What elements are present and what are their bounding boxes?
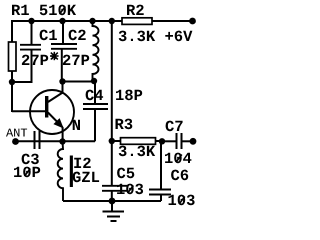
resistor R1 <box>9 42 17 71</box>
wire R1 top lead <box>11 21 13 42</box>
capacitor C5 plates <box>102 186 127 191</box>
wire emitter rail <box>16 140 96 142</box>
label C4 value <box>116 90 142 101</box>
wire R3 right lead <box>156 140 163 142</box>
wire collector lead <box>62 82 64 93</box>
label C5 <box>117 168 134 179</box>
wire C4 top lead <box>94 81 96 104</box>
wire C7 right lead <box>182 140 194 142</box>
transistor Q1 emitter arrowhead <box>54 119 63 128</box>
wire R3 left lead <box>112 140 121 142</box>
transistor Q1 circle <box>30 90 74 134</box>
label R1 zero slash <box>60 7 66 15</box>
transistor Q1 collector stroke <box>48 92 63 102</box>
wire top rail left <box>11 20 122 22</box>
node junction ground <box>109 198 116 205</box>
inductor L1 tank coil <box>93 21 99 81</box>
node junction C7 left <box>159 138 165 144</box>
inductor I2 core bar <box>70 156 73 188</box>
node junction collector <box>59 78 65 84</box>
label C1 value <box>22 54 57 65</box>
wire long +6V feed vertical <box>111 21 113 141</box>
label C2 <box>69 30 86 41</box>
wire top rail right of R2 <box>152 20 192 22</box>
label C6 zero slash <box>179 197 185 205</box>
wire C1 top lead <box>31 21 33 45</box>
capacitor C3 plates <box>35 131 40 149</box>
ground symbol <box>103 201 125 221</box>
label R3 value <box>119 146 156 157</box>
node terminal +6V <box>189 18 196 25</box>
node junction R3 left <box>109 138 115 144</box>
label N transistor polarity <box>73 120 80 130</box>
wire C6 top lead <box>160 142 162 190</box>
node junction coil bottom <box>91 78 97 84</box>
node junction top feed <box>109 18 115 24</box>
label C5 value <box>117 184 143 195</box>
transistor Q1 base bar <box>45 96 48 118</box>
label C3 <box>22 154 39 165</box>
wire C4 bottom lead <box>94 109 96 141</box>
node junction top C1 <box>28 18 34 24</box>
label C1 <box>40 30 57 41</box>
capacitor C4 plates <box>83 104 108 109</box>
node junction top coil <box>89 18 95 24</box>
label I2 <box>74 158 91 168</box>
label C1 value asterisk enlargement <box>50 52 59 60</box>
label C6 <box>171 170 188 181</box>
node junction top C2 <box>59 18 65 24</box>
transistor Q1 emitter stroke <box>48 113 63 128</box>
wire C1 bottom lead <box>12 51 32 83</box>
label R2 value +6V <box>119 31 193 42</box>
label R2 <box>127 5 144 15</box>
label C6 value <box>169 195 195 206</box>
wire C2 top lead <box>62 21 64 44</box>
node junction emitter <box>59 138 65 144</box>
capacitor C7 plates <box>177 133 182 149</box>
wire collector node to coil node <box>63 81 95 83</box>
node junction base bias <box>9 79 15 85</box>
label C2 value <box>63 55 89 65</box>
wire emitter lead <box>62 127 64 142</box>
wire C5 top lead <box>111 141 113 186</box>
inductor I2 coil <box>58 142 63 202</box>
wire C2 bottom lead <box>61 49 63 82</box>
node terminal ANT <box>12 138 19 145</box>
label C3 zero slash <box>25 169 31 177</box>
wire C5 bottom lead <box>111 191 113 202</box>
label C5 zero slash <box>128 186 134 194</box>
resistor R2 <box>122 18 152 25</box>
wire C6 bottom lead <box>160 195 162 202</box>
label R3 <box>116 119 133 130</box>
label C4 <box>86 90 104 101</box>
label I2 type GZL <box>73 172 100 183</box>
node terminal output <box>190 138 197 145</box>
resistor R3 <box>121 138 156 145</box>
label ANT <box>6 129 27 137</box>
label C7 <box>166 121 183 132</box>
wire bottom ground rail <box>63 200 161 202</box>
capacitor C6 plates <box>149 190 171 195</box>
capacitor C2 plates <box>51 44 77 49</box>
wire base lead <box>12 110 45 112</box>
label R1 value <box>12 5 76 16</box>
capacitor C1 plates <box>20 45 41 50</box>
label C7 value <box>165 153 191 164</box>
wire R1 bottom lead <box>11 71 13 112</box>
label C3 value <box>14 167 40 178</box>
wire C7 left lead <box>162 140 177 142</box>
label C7 zero slash <box>176 155 182 163</box>
